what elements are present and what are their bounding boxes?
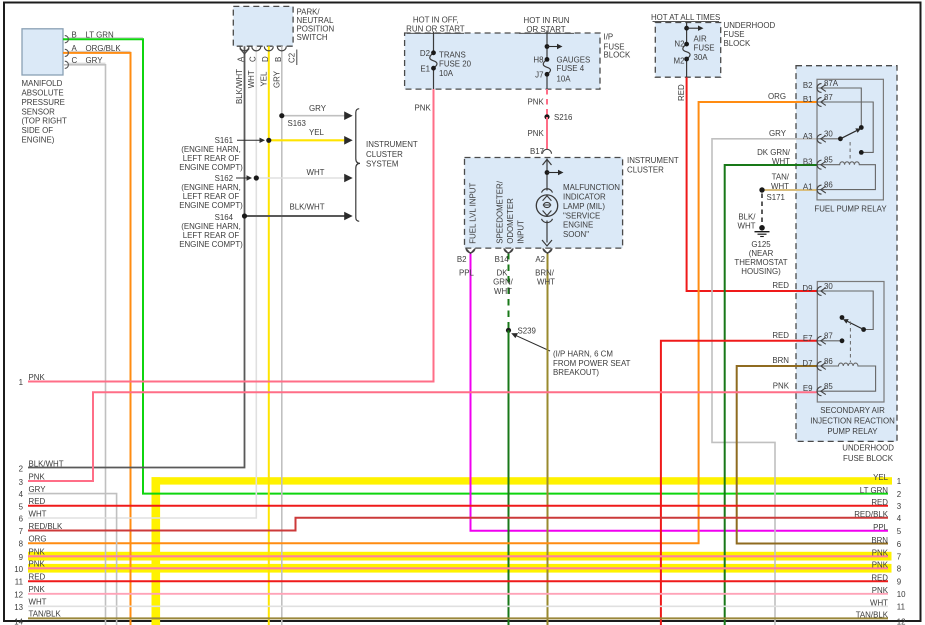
wire ORG from fuel pump relay B1/87 to left row 8 <box>28 102 817 543</box>
left row labels 1-14 <box>14 373 64 625</box>
svg-text:12: 12 <box>897 617 906 625</box>
svg-text:5: 5 <box>19 502 24 511</box>
svg-text:B: B <box>274 57 283 62</box>
instrument cluster labels <box>469 156 679 244</box>
svg-text:D9: D9 <box>802 284 813 293</box>
right row labels 1-12 <box>854 473 906 625</box>
svg-text:D2: D2 <box>420 49 430 58</box>
svg-text:OR START: OR START <box>526 25 565 34</box>
svg-text:BREAKOUT): BREAKOUT) <box>553 368 599 377</box>
wire BLK/WHT dashed from S171 to ground G125 <box>761 194 763 226</box>
svg-text:INSTRUMENT: INSTRUMENT <box>366 140 418 149</box>
svg-text:7: 7 <box>897 553 901 562</box>
svg-text:30A: 30A <box>694 53 709 62</box>
svg-text:PNK: PNK <box>872 561 889 570</box>
svg-text:11: 11 <box>15 578 23 587</box>
svg-text:PNK: PNK <box>415 103 432 112</box>
wire TAN/BLK row left 14 / right 12 <box>28 617 888 619</box>
secondary air injection reaction pump relay U2 inner box <box>817 282 884 403</box>
svg-text:TAN/: TAN/ <box>772 173 790 182</box>
svg-text:PNK: PNK <box>528 98 545 107</box>
svg-text:S163: S163 <box>288 119 307 128</box>
wire GRY from switch pin B through S163 down off page <box>281 46 283 625</box>
splice S239 dot <box>506 328 511 333</box>
switch pin B arc <box>277 46 286 51</box>
park/neutral position switch labels <box>235 7 335 104</box>
fuel pump relay internal 87 contact <box>817 102 873 155</box>
trans fuse labels <box>415 49 472 112</box>
S216 and PNK labels <box>528 98 574 156</box>
svg-text:J7: J7 <box>535 71 543 80</box>
svg-text:RED/BLK: RED/BLK <box>29 522 64 531</box>
wire GRY from MAP sensor pin C down off page <box>63 65 106 625</box>
svg-text:FUSE 20: FUSE 20 <box>439 60 472 69</box>
yellow highlight band on PNK row 9 <box>28 552 892 561</box>
svg-text:ENGINE COMPT): ENGINE COMPT) <box>179 240 243 249</box>
underhood fuse block box (relays) <box>796 66 897 442</box>
svg-text:14: 14 <box>14 617 23 625</box>
svg-text:S162: S162 <box>215 174 233 183</box>
svg-text:ENGINE COMPT): ENGINE COMPT) <box>179 163 243 172</box>
svg-text:WHT: WHT <box>771 182 789 191</box>
svg-text:GRY: GRY <box>29 485 47 494</box>
svg-text:RED: RED <box>677 84 686 101</box>
svg-text:B14: B14 <box>495 255 510 264</box>
svg-text:87: 87 <box>824 332 833 341</box>
svg-text:B: B <box>72 31 77 40</box>
svg-text:DK: DK <box>497 268 509 277</box>
wire ORG/BLK from MAP sensor pin A down off page <box>63 53 131 625</box>
svg-text:ENGINE): ENGINE) <box>22 135 55 144</box>
cluster exit chevron to pin A2 <box>542 240 552 246</box>
svg-text:YEL: YEL <box>260 71 269 87</box>
svg-text:FUSE BLOCK: FUSE BLOCK <box>843 454 894 463</box>
wire RED from air pump relay E7/87 down off page <box>661 341 817 625</box>
svg-text:AIR: AIR <box>694 34 707 43</box>
svg-text:E9: E9 <box>803 384 813 393</box>
svg-text:BRN: BRN <box>871 536 888 545</box>
svg-text:H8: H8 <box>533 56 544 65</box>
svg-text:A: A <box>72 44 78 53</box>
svg-text:PNK: PNK <box>29 373 46 382</box>
wire PNK row left 10 / right 8 <box>28 567 888 569</box>
svg-text:C2: C2 <box>288 53 297 63</box>
svg-text:B3: B3 <box>803 158 813 167</box>
wire WHT from switch pin C through S162 to left row 6 <box>28 46 256 518</box>
svg-text:LEFT REAR OF: LEFT REAR OF <box>183 154 240 163</box>
svg-text:WHT: WHT <box>307 168 325 177</box>
svg-text:PNK: PNK <box>872 586 889 595</box>
air pump relay pin D7 arc <box>817 362 826 371</box>
I/P fuse block box <box>405 33 600 89</box>
svg-text:(ENGINE HARN,: (ENGINE HARN, <box>181 183 241 192</box>
wire RED/BLK row left 7 / right 4 <box>28 518 888 531</box>
svg-text:6: 6 <box>897 540 902 549</box>
svg-text:30: 30 <box>824 282 833 291</box>
wire PNK dashed from gauges fuse J7 to S216 <box>546 89 548 117</box>
I/P fuse block label <box>604 33 631 60</box>
svg-text:GRY: GRY <box>769 129 787 138</box>
wire WHT branch from S162 to instrument cluster system <box>256 174 352 183</box>
svg-text:CLUSTER: CLUSTER <box>366 150 403 159</box>
instrument cluster internal wire with entry chevron, branch arrow <box>543 159 564 243</box>
wire BLK/WHT branch from S164 to instrument cluster system <box>245 212 353 221</box>
svg-text:10A: 10A <box>557 74 572 83</box>
svg-text:BLK/WHT: BLK/WHT <box>290 203 325 212</box>
fuel pump relay U1 inner box <box>817 79 883 200</box>
svg-text:GRY: GRY <box>273 70 282 88</box>
svg-text:YEL: YEL <box>309 128 325 137</box>
S239 labels <box>518 326 631 377</box>
wire PNK left row 3 to air pump relay E9/85 <box>28 392 817 481</box>
hot at all times label <box>651 13 720 22</box>
svg-text:DK GRN/: DK GRN/ <box>757 148 791 157</box>
underhood fuse block box (air fuse) <box>655 23 720 78</box>
svg-text:12: 12 <box>14 590 23 599</box>
svg-text:RUN OR START: RUN OR START <box>406 25 465 34</box>
svg-text:UNDERHOOD: UNDERHOOD <box>842 444 894 453</box>
svg-text:BLK/WHT: BLK/WHT <box>29 459 64 468</box>
MAP label underlines <box>68 38 143 64</box>
svg-text:9: 9 <box>19 553 24 562</box>
svg-text:3: 3 <box>897 502 902 511</box>
svg-text:PRESSURE: PRESSURE <box>22 98 65 107</box>
svg-text:7: 7 <box>19 527 23 536</box>
svg-text:S216: S216 <box>554 113 573 122</box>
svg-text:ORG/BLK: ORG/BLK <box>86 44 122 53</box>
fuel pump relay wire labels <box>757 92 791 191</box>
svg-text:ABSOLUTE: ABSOLUTE <box>22 89 64 98</box>
svg-text:WHT: WHT <box>738 222 756 231</box>
wire LT GRN from MAP sensor pin B to right row 2 <box>63 39 888 493</box>
svg-text:1: 1 <box>19 378 23 387</box>
svg-text:I/P: I/P <box>604 33 614 42</box>
svg-text:SWITCH: SWITCH <box>297 33 328 42</box>
svg-text:M2: M2 <box>674 57 685 66</box>
switch pin D arc <box>264 46 273 51</box>
splice S162 dot <box>254 175 259 180</box>
svg-text:11: 11 <box>897 603 905 612</box>
svg-text:FUEL PUMP RELAY: FUEL PUMP RELAY <box>814 205 887 214</box>
svg-text:RED: RED <box>29 497 46 506</box>
svg-text:RED: RED <box>772 281 789 290</box>
svg-text:E7: E7 <box>803 334 813 343</box>
air pump relay wire labels <box>772 281 789 390</box>
wire RED from air fuse M2 to relay pin D9/30 <box>687 77 817 291</box>
splice S163 dot <box>279 113 284 118</box>
svg-text:FUSE 4: FUSE 4 <box>557 64 585 73</box>
svg-text:D: D <box>261 56 270 62</box>
svg-text:"SERVICE: "SERVICE <box>563 211 600 220</box>
trans fuse 20 feed wire and fuse element <box>430 32 437 90</box>
svg-text:HOT AT ALL TIMES: HOT AT ALL TIMES <box>651 13 720 22</box>
svg-text:S171: S171 <box>767 193 785 202</box>
svg-text:9: 9 <box>897 578 902 587</box>
air pump relay internal 87 contact <box>817 338 844 343</box>
svg-text:LT GRN: LT GRN <box>860 486 889 495</box>
svg-text:B17: B17 <box>530 147 544 156</box>
svg-text:ODOMETER: ODOMETER <box>506 198 515 244</box>
malfunction indicator lamp MIL symbol <box>536 189 557 223</box>
svg-text:RED: RED <box>871 498 888 507</box>
wire DK GRN/WHT dashed from cluster pin B14 to S239 <box>508 253 510 330</box>
svg-text:13: 13 <box>14 603 23 612</box>
splice S171 dot <box>759 187 764 192</box>
fuel pump relay pin A1 arc <box>817 185 826 194</box>
svg-text:PUMP RELAY: PUMP RELAY <box>827 427 878 436</box>
fuel pump relay pin B3 arc <box>817 160 826 169</box>
wire GRY from fuel pump relay A3/30 down off page <box>712 139 817 625</box>
cluster pin and wire labels B2 B14 A2 <box>457 255 555 296</box>
svg-text:PNK: PNK <box>773 381 790 390</box>
svg-text:WHT: WHT <box>29 509 47 518</box>
svg-text:HOT IN OFF,: HOT IN OFF, <box>413 15 459 24</box>
svg-text:SIDE OF: SIDE OF <box>22 126 54 135</box>
brace for instrument cluster system <box>356 109 360 222</box>
cluster pin A2 arc <box>543 248 552 253</box>
hot in run or start label <box>519 16 574 34</box>
wire WHT row left 13 / right 11 <box>28 605 888 607</box>
cluster pin B2 arc <box>466 248 475 253</box>
svg-text:BLK/WHT: BLK/WHT <box>235 69 244 104</box>
svg-text:WHT: WHT <box>537 278 555 287</box>
svg-text:A: A <box>237 56 246 62</box>
svg-text:S161: S161 <box>215 136 233 145</box>
S161 pointer arrow <box>237 138 265 143</box>
svg-text:UNDERHOOD: UNDERHOOD <box>724 21 776 30</box>
svg-text:4: 4 <box>19 490 24 499</box>
wire PNK from trans fuse E1 to left row 1 <box>28 89 434 382</box>
connector B17 arc <box>543 149 552 153</box>
svg-text:SECONDARY AIR: SECONDARY AIR <box>820 406 885 415</box>
svg-text:MANIFOLD: MANIFOLD <box>22 79 63 88</box>
svg-text:WHT: WHT <box>870 599 888 608</box>
air fuse labels <box>674 34 715 65</box>
svg-text:WHT: WHT <box>29 598 47 607</box>
instrument cluster system label <box>366 140 418 168</box>
RED vertical wire label <box>677 84 686 101</box>
svg-text:RED: RED <box>29 573 46 582</box>
svg-text:ENGINE: ENGINE <box>563 221 593 230</box>
svg-text:BLOCK: BLOCK <box>604 51 631 60</box>
svg-text:INJECTION REACTION: INJECTION REACTION <box>810 417 895 426</box>
svg-text:LEFT REAR OF: LEFT REAR OF <box>183 192 240 201</box>
wire BLK/WHT from switch pin A through S164 to left row 2 <box>28 46 245 467</box>
svg-text:GRY: GRY <box>309 104 327 113</box>
svg-text:S239: S239 <box>518 326 537 335</box>
svg-text:5: 5 <box>897 527 902 536</box>
wire BRN/WHT from cluster pin A2 down off page <box>547 253 549 625</box>
svg-text:PNK: PNK <box>29 473 46 482</box>
hot in off run or start label <box>406 15 465 33</box>
svg-text:PNK: PNK <box>528 129 545 138</box>
svg-text:RED: RED <box>871 574 888 583</box>
svg-text:GRY: GRY <box>86 56 104 65</box>
svg-text:B2: B2 <box>803 81 813 90</box>
svg-text:N2: N2 <box>674 40 684 49</box>
svg-text:FUSE: FUSE <box>694 44 715 53</box>
wire RED row left 11 / right 9 <box>28 580 888 582</box>
svg-text:FROM POWER SEAT: FROM POWER SEAT <box>553 359 631 368</box>
svg-text:SYSTEM: SYSTEM <box>366 160 398 169</box>
svg-text:INSTRUMENT: INSTRUMENT <box>627 156 679 165</box>
svg-text:HOT IN RUN: HOT IN RUN <box>524 16 570 25</box>
MAP pin C arc <box>65 61 69 68</box>
svg-text:WHT: WHT <box>772 157 790 166</box>
svg-text:SPEEDOMETER/: SPEEDOMETER/ <box>495 180 504 244</box>
S171 G125 labels <box>734 193 787 276</box>
thick yellow highlight band row 1 right YEL <box>152 477 893 484</box>
svg-text:(ENGINE HARN,: (ENGINE HARN, <box>181 222 241 231</box>
svg-text:PNK: PNK <box>29 585 46 594</box>
splice S161 dot <box>266 138 271 143</box>
svg-text:A1: A1 <box>803 183 813 192</box>
svg-text:LEFT REAR OF: LEFT REAR OF <box>183 231 240 240</box>
ground G125 symbol <box>755 225 770 237</box>
air pump relay pin E7 arc <box>817 336 826 345</box>
svg-text:INDICATOR: INDICATOR <box>563 193 606 202</box>
underhood fuse block label bottom <box>842 444 894 463</box>
svg-text:86: 86 <box>824 357 833 366</box>
svg-text:87A: 87A <box>824 79 839 88</box>
wire PNK row left 9 / right 7 <box>28 555 888 557</box>
switch pin C arc <box>252 46 261 51</box>
svg-text:THERMOSTAT: THERMOSTAT <box>734 258 787 267</box>
wire BRN from air pump relay D7/86 to right row 6 <box>737 366 888 544</box>
svg-text:LT GRN: LT GRN <box>86 31 115 40</box>
svg-text:FUSE: FUSE <box>724 30 745 39</box>
wire PNK row left 12 / right 10 <box>28 593 888 595</box>
fuel pump relay pin B1 arc <box>817 98 826 107</box>
fuel pump relay pin B2 arc <box>817 84 826 93</box>
svg-text:PNK: PNK <box>29 548 46 557</box>
svg-text:C: C <box>72 56 78 65</box>
svg-text:INPUT: INPUT <box>516 220 525 244</box>
svg-text:PPL: PPL <box>459 268 475 277</box>
wire TAN/WHT from S171 to fuel pump relay A1/86 <box>762 189 817 191</box>
svg-text:(NEAR: (NEAR <box>749 249 774 258</box>
svg-text:1: 1 <box>897 477 901 486</box>
svg-text:10A: 10A <box>439 69 454 78</box>
svg-text:B1: B1 <box>803 95 813 104</box>
svg-text:MALFUNCTION: MALFUNCTION <box>563 183 620 192</box>
svg-text:8: 8 <box>897 565 902 574</box>
air fuse 30A feed wire, branch arrow and fuse element <box>683 22 704 78</box>
wire RED row left 5 / right 3 <box>28 505 888 507</box>
svg-text:C: C <box>248 56 257 62</box>
svg-text:6: 6 <box>19 515 24 524</box>
splice and harness annotation labels S161 S162 S163 S164 <box>179 104 326 249</box>
instrument cluster box <box>465 158 623 249</box>
svg-text:(TOP RIGHT: (TOP RIGHT <box>22 117 67 126</box>
switch pin A arc with chevron <box>240 46 249 54</box>
fuel pump relay internal 30 armature <box>817 128 861 161</box>
air pump relay pin labels <box>802 282 895 436</box>
svg-text:85: 85 <box>824 156 833 165</box>
MAP sensor labels <box>22 31 122 145</box>
yellow highlight band on PNK row 10 <box>28 564 892 573</box>
svg-text:RED: RED <box>772 331 789 340</box>
svg-text:ORG: ORG <box>29 535 47 544</box>
fuel pump relay pin labels <box>803 79 887 214</box>
svg-text:BRN/: BRN/ <box>535 268 555 277</box>
svg-text:30: 30 <box>824 130 833 139</box>
wire PNK from S216 to B17 <box>546 117 548 150</box>
thick yellow highlight band vertical <box>152 477 161 625</box>
wire DK GRN/WHT from fuel pump relay B3/85 down off page <box>725 165 817 625</box>
svg-text:PNK: PNK <box>872 549 889 558</box>
C2 connector tick <box>296 50 298 66</box>
svg-text:10: 10 <box>14 565 23 574</box>
svg-text:2: 2 <box>897 490 901 499</box>
svg-text:SENSOR: SENSOR <box>22 108 56 117</box>
MAP pin B arc <box>65 36 69 43</box>
svg-text:A3: A3 <box>803 132 813 141</box>
wire YEL branch from S161 to instrument cluster system <box>269 136 353 145</box>
svg-text:D7: D7 <box>802 359 812 368</box>
svg-text:SOON": SOON" <box>563 230 589 239</box>
manifold absolute pressure sensor box <box>22 29 63 75</box>
underhood fuse block label top <box>724 21 776 48</box>
air pump relay pin D9 arc <box>817 287 826 296</box>
svg-text:ORG: ORG <box>768 92 786 101</box>
air pump relay pin E9 arc <box>817 387 826 396</box>
svg-text:RED/BLK: RED/BLK <box>854 510 889 519</box>
svg-text:TAN/BLK: TAN/BLK <box>29 610 62 619</box>
svg-text:BRN: BRN <box>772 356 789 365</box>
svg-text:10: 10 <box>897 590 906 599</box>
svg-text:2: 2 <box>19 465 23 474</box>
S162 pointer arrow <box>236 175 252 180</box>
svg-text:(ENGINE HARN,: (ENGINE HARN, <box>181 145 241 154</box>
air pump relay coil 86-85 <box>817 363 876 391</box>
svg-text:G125: G125 <box>751 240 771 249</box>
wire YEL from switch pin D through S161 down off page <box>268 46 270 625</box>
svg-text:3: 3 <box>19 478 24 487</box>
svg-text:TAN/BLK: TAN/BLK <box>856 611 889 620</box>
svg-text:PNK: PNK <box>29 560 46 569</box>
wire GRY branch from S163 to instrument cluster system <box>282 111 353 120</box>
svg-text:4: 4 <box>897 514 902 523</box>
svg-text:YEL: YEL <box>873 473 889 482</box>
air pump relay internal 30 contact <box>817 291 873 362</box>
svg-text:87: 87 <box>824 93 833 102</box>
svg-text:86: 86 <box>824 180 833 189</box>
svg-text:WHT: WHT <box>247 70 256 88</box>
svg-text:FUEL LVL INPUT: FUEL LVL INPUT <box>469 183 478 244</box>
svg-text:PPL: PPL <box>873 523 889 532</box>
S239 pointer arrow <box>511 333 550 351</box>
splice S216 dot <box>544 114 549 119</box>
cluster pin B14 arc <box>504 248 513 253</box>
fuel pump relay internal 87A contact <box>817 88 864 130</box>
svg-text:B2: B2 <box>457 255 467 264</box>
fuel pump relay coil 85-86 <box>817 162 875 190</box>
svg-text:BLK/: BLK/ <box>738 213 756 222</box>
svg-text:ENGINE COMPT): ENGINE COMPT) <box>179 201 243 210</box>
svg-text:(I/P HARN, 6 CM: (I/P HARN, 6 CM <box>553 350 613 359</box>
splice S164 dot <box>242 213 247 218</box>
MAP pin A arc <box>65 49 69 56</box>
svg-text:TRANS: TRANS <box>439 51 466 60</box>
svg-text:HOUSING): HOUSING) <box>741 267 781 276</box>
gauges fuse 4 feed wire, branch arrow and fuse element <box>543 31 562 90</box>
svg-text:BLOCK: BLOCK <box>724 39 751 48</box>
svg-text:S164: S164 <box>215 213 234 222</box>
svg-text:CLUSTER: CLUSTER <box>627 166 664 175</box>
wire GRY left row 4 down off page <box>28 494 117 625</box>
svg-text:WHT: WHT <box>494 287 512 296</box>
